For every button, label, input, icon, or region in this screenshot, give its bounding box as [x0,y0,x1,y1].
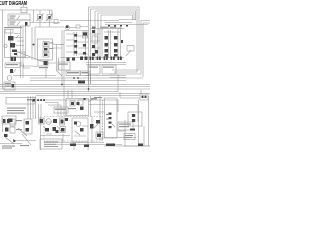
svg-text:CUIT DIAGRAM: CUIT DIAGRAM [0,1,27,7]
